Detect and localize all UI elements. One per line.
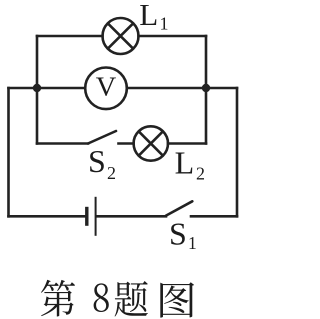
wire left inner vertical	[36, 36, 39, 144]
svg-text:2: 2	[196, 164, 205, 184]
wire voltmeter-branch left	[9, 87, 86, 90]
wire bottom-left horizontal	[9, 215, 86, 218]
svg-text:L: L	[175, 145, 195, 181]
label L1	[139, 0, 168, 33]
caption char 题	[115, 281, 148, 317]
wire left outer vertical	[7, 88, 10, 216]
svg-text:L: L	[139, 0, 158, 32]
svg-text:S: S	[169, 215, 187, 251]
node junction left (dot)	[33, 84, 41, 92]
battery cell (short thick negative plate)	[85, 207, 88, 226]
caption char 8	[94, 283, 109, 312]
wire bottom-right horizontal	[191, 215, 237, 218]
label S1	[169, 215, 197, 253]
caption char 第	[41, 280, 75, 317]
wire L2 right	[168, 142, 206, 145]
wire S2-branch left	[37, 142, 88, 145]
battery cell (long thin positive plate)	[95, 197, 97, 236]
wire top-left horizontal	[37, 35, 103, 38]
label S2	[88, 143, 116, 183]
switch S2 (open blade)	[88, 131, 134, 144]
wire voltmeter-branch right	[127, 87, 237, 90]
svg-text:1: 1	[160, 13, 169, 33]
wire top-right horizontal	[139, 35, 207, 38]
switch S1 (open blade)	[166, 201, 192, 215]
wire battery to S1	[97, 215, 166, 218]
label L2	[175, 145, 205, 184]
lamp L1	[103, 18, 139, 54]
wire right inner vertical	[205, 36, 208, 144]
node junction right (dot)	[202, 84, 210, 92]
wire right outer vertical	[236, 88, 239, 216]
svg-text:2: 2	[107, 163, 116, 183]
svg-text:S: S	[88, 143, 106, 179]
lamp L2	[134, 126, 168, 160]
caption char 图	[160, 282, 194, 317]
svg-text:V: V	[96, 71, 117, 102]
svg-text:1: 1	[188, 233, 197, 253]
voltmeter V (meter)	[85, 68, 127, 110]
